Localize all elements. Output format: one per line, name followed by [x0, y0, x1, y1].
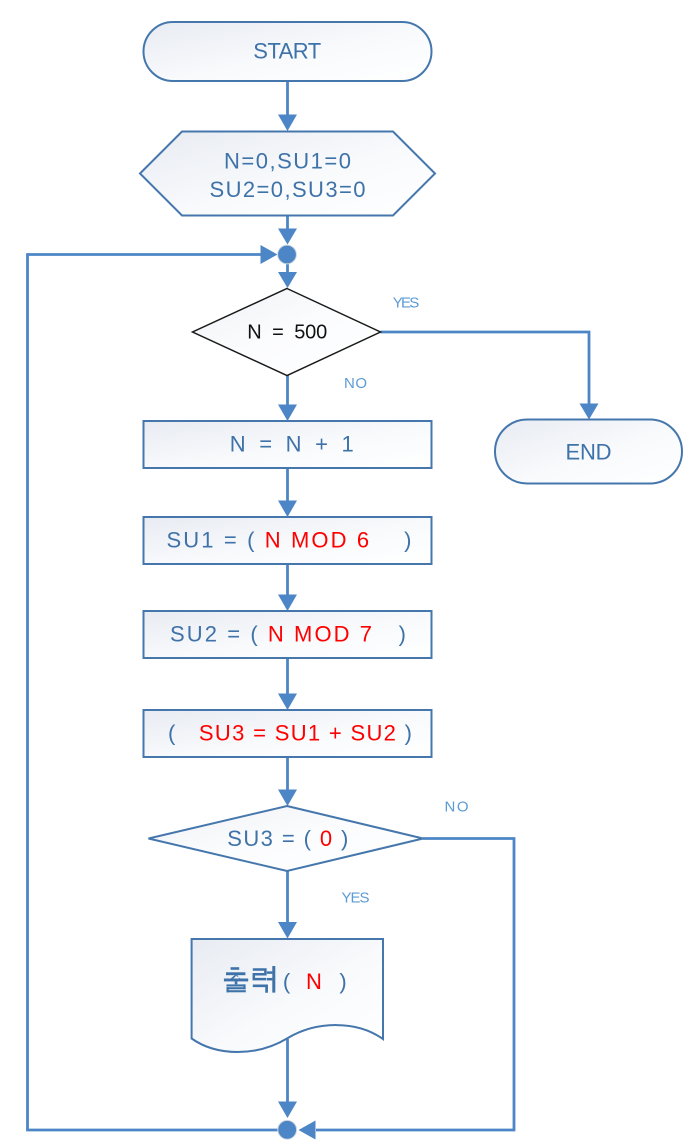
svg-text:SU2 = ( N MOD 7 ): SU2 = ( N MOD 7 )	[170, 622, 406, 647]
document 출력 ( N )	[192, 939, 383, 1052]
wire YES-branch from decision N=500 right point to END	[381, 332, 599, 420]
decision SU3 = ( 0 )	[149, 806, 424, 871]
decision N = 500	[193, 289, 381, 376]
process SU1 = ( N MOD 6 )	[144, 517, 432, 564]
arrow process2 to process3	[278, 564, 297, 611]
preparation N=0,SU1=0 SU2=0,SU3=0	[140, 132, 435, 216]
process SU2 = ( N MOD 7 )	[144, 611, 432, 658]
svg-text:YES: YES	[393, 295, 420, 312]
arrow process3 to process4	[278, 658, 297, 710]
svg-text:( SU3 = SU1 + SU2 ): ( SU3 = SU1 + SU2 )	[168, 721, 412, 746]
svg-text:SU3 = ( 0 ): SU3 = ( 0 )	[227, 826, 348, 851]
svg-text:NO: NO	[344, 375, 367, 392]
wire NO-branch from decision SU3 right point down to bottom junction	[299, 839, 515, 1140]
bottom junction dot	[278, 1120, 297, 1139]
hangul glyph ryeok	[253, 966, 274, 993]
svg-text:): )	[339, 969, 346, 994]
top junction dot	[278, 245, 297, 264]
arrow junction to decision N=500	[278, 263, 297, 288]
process N = N + 1	[144, 421, 432, 468]
svg-text:NO: NO	[445, 799, 469, 816]
arrow decision to process N=N+1	[278, 376, 297, 422]
svg-text:SU2=0,SU3=0: SU2=0,SU3=0	[210, 177, 366, 202]
arrow process4 to decision SU3	[278, 757, 297, 806]
arrow document to bottom junction	[278, 1039, 297, 1118]
hangul glyph chul (output)	[224, 967, 248, 992]
arrow process1 to process2	[278, 468, 297, 517]
svg-text:N: N	[306, 969, 322, 994]
arrow START to preparation	[278, 81, 297, 131]
svg-text:N=0,SU1=0: N=0,SU1=0	[224, 149, 351, 174]
arrow decision SU3 to document	[278, 871, 297, 939]
svg-text:YES: YES	[342, 890, 370, 907]
terminator START	[144, 22, 432, 81]
arrow preparation to junction	[278, 216, 297, 245]
svg-text:(: (	[283, 969, 291, 994]
terminator END	[495, 420, 682, 484]
svg-text:END: END	[566, 440, 612, 465]
svg-text:START: START	[253, 39, 321, 64]
svg-text:N = 500: N = 500	[247, 322, 327, 344]
process ( SU3 = SU1 + SU2 )	[144, 710, 432, 757]
wire left-loop from bottom junction up to top junction	[28, 245, 281, 1130]
